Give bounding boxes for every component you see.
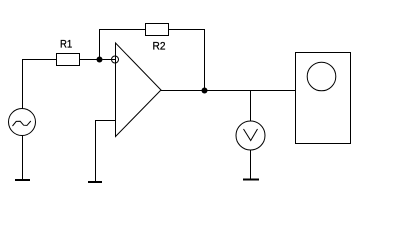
voltmeter V mark (244, 129, 258, 141)
wire: feedback from node A up and right to R2 (100, 30, 146, 60)
node A junction dot (97, 57, 103, 63)
ground (voltmeter) (243, 179, 259, 181)
wire: R2 right and down to output node (169, 30, 205, 89)
wire: AC source bottom to ground (22, 136, 24, 180)
wire: node A to inverting input bubble (103, 59, 116, 61)
wire: non-inverting input to ground (96, 121, 116, 182)
oscilloscope screen circle (307, 62, 336, 91)
node B junction dot (output/feedback) (202, 88, 208, 94)
AC source sine symbol (13, 121, 31, 126)
ground (AC source) (15, 179, 30, 181)
oscilloscope body (296, 53, 351, 144)
svg-text:R1: R1 (60, 39, 72, 51)
svg-text:R2: R2 (153, 40, 166, 52)
ground (op-amp non-inverting input) (88, 181, 102, 183)
wire: R1 to node A (80, 59, 100, 61)
op-amp U1 triangle (116, 43, 162, 137)
voltmeter M1 circle (236, 121, 265, 150)
op-amp inverting input bubble (112, 56, 119, 63)
wire: op-amp output to oscilloscope (161, 90, 295, 92)
resistor R2 (146, 24, 169, 36)
wire: voltmeter bottom to ground (250, 150, 252, 179)
wire: AC source top up and right to R1 (23, 60, 57, 109)
wire: output node down to voltmeter (250, 91, 252, 122)
AC source V1 circle (9, 109, 36, 136)
resistor R1 (57, 54, 80, 66)
